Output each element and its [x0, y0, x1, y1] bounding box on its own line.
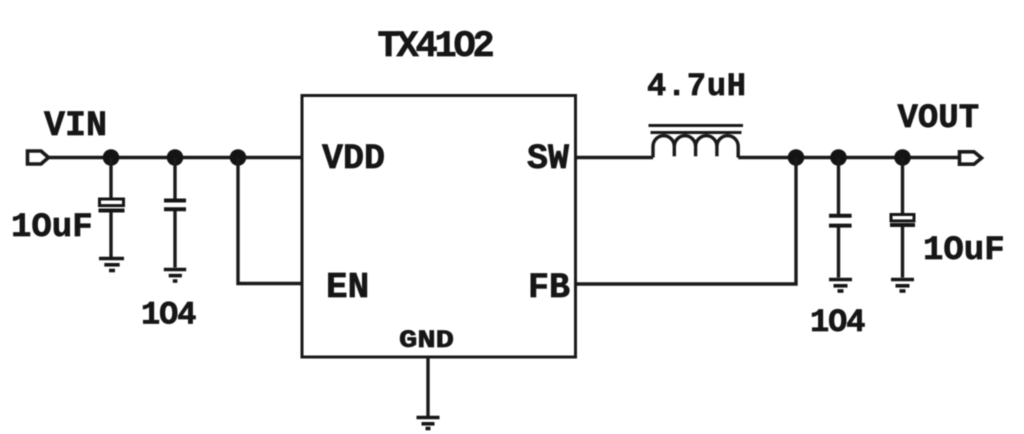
- ground for C1: [99, 259, 124, 271]
- svg-text:VIN: VIN: [44, 106, 107, 146]
- node dot C: [230, 149, 247, 166]
- inductor L1 winding gap stubs: [674, 147, 717, 157]
- node dot B: [167, 149, 184, 166]
- svg-text:TX41O2: TX41O2: [378, 26, 494, 68]
- wire VIN to VDD: [49, 156, 303, 159]
- svg-text:1O4: 1O4: [810, 304, 866, 341]
- svg-text:GND: GND: [399, 326, 454, 355]
- wire node D to FB pin: [576, 158, 797, 285]
- ground for C2: [164, 270, 186, 282]
- svg-text:1OuF: 1OuF: [11, 209, 93, 247]
- IC U1 TX4102 body: [302, 96, 576, 358]
- wire GND pin down: [426, 357, 429, 416]
- svg-text:1O4: 1O4: [141, 297, 197, 334]
- svg-text:VOUT: VOUT: [898, 100, 980, 138]
- capacitor C1 10uF: [99, 158, 125, 258]
- svg-text:1OuF: 1OuF: [923, 232, 1005, 270]
- svg-text:EN: EN: [326, 267, 369, 308]
- node dot E: [830, 149, 847, 166]
- node dot A: [103, 149, 120, 166]
- svg-text:SW: SW: [527, 139, 569, 179]
- input terminal J1 VIN: [28, 151, 49, 164]
- wire SW pin to inductor: [576, 156, 654, 159]
- inductor L1 core bars: [649, 126, 744, 133]
- ground for C4: [891, 280, 914, 292]
- svg-text:FB: FB: [528, 268, 570, 308]
- capacitor C2 104: [164, 158, 186, 268]
- inductor L1 4.7uH windings: [653, 136, 738, 158]
- wire inductor to VOUT: [738, 156, 959, 159]
- svg-text:4.7uH: 4.7uH: [647, 68, 746, 105]
- wire node C to EN pin: [238, 158, 302, 284]
- node dot D: [788, 149, 805, 166]
- capacitor C3 104: [829, 158, 852, 278]
- ground for C3: [829, 280, 852, 292]
- capacitor C4 10uF: [890, 158, 915, 278]
- svg-text:VDD: VDD: [322, 139, 385, 179]
- ground for U1 GND: [417, 418, 440, 429]
- node dot F: [894, 149, 911, 166]
- output terminal J2 VOUT: [960, 152, 982, 164]
